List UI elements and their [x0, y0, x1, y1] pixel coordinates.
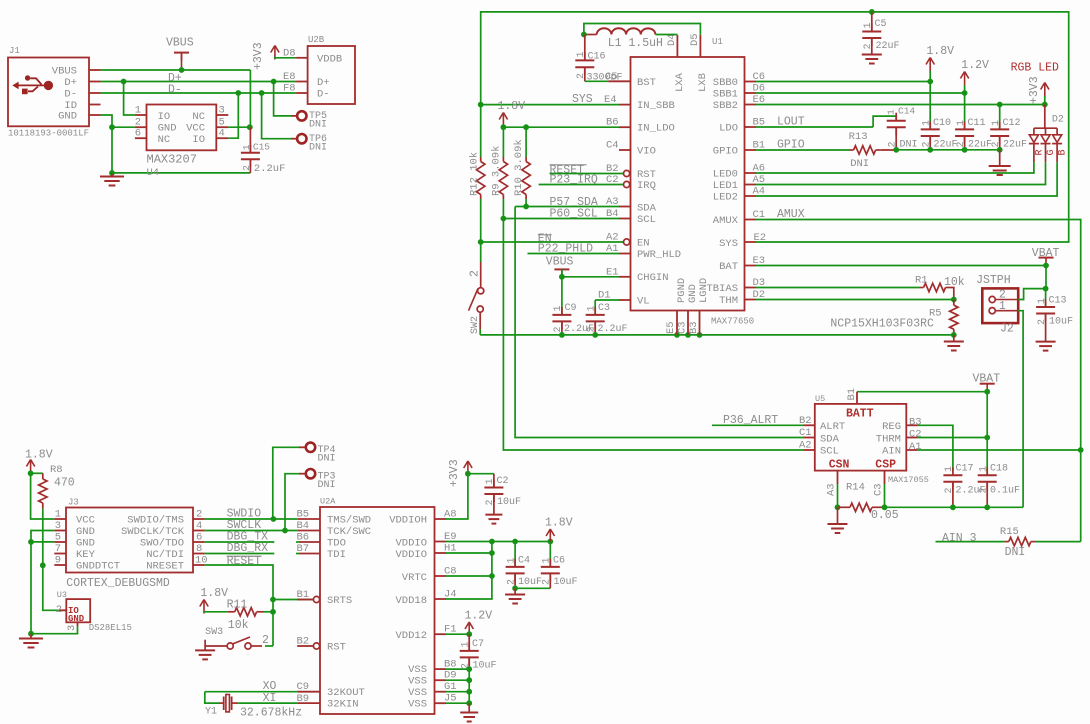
pin J1.ID	[89, 104, 101, 106]
pin U4.5	[216, 126, 228, 128]
pin J3.8	[193, 553, 205, 555]
pin U4.6	[135, 137, 147, 139]
pin U1.LXA D4	[676, 35, 678, 57]
resistor R5 NCP15XH103F03RC	[953, 300, 955, 306]
svg-text:C3: C3	[873, 483, 885, 496]
svg-text:4: 4	[196, 520, 202, 532]
svg-text:LGND: LGND	[698, 278, 710, 303]
wire VL to C3	[595, 299, 619, 301]
svg-text:32.678kHz: 32.678kHz	[240, 707, 302, 720]
label EN	[538, 234, 552, 236]
svg-text:1.2V: 1.2V	[465, 610, 493, 623]
wire VCC to C15	[228, 126, 250, 128]
svg-text:1: 1	[956, 120, 967, 126]
svg-text:J1: J1	[9, 46, 20, 56]
svg-text:1.8V: 1.8V	[545, 517, 573, 530]
svg-text:TDO: TDO	[327, 538, 346, 550]
svg-text:8: 8	[196, 543, 202, 555]
svg-text:J2: J2	[1000, 323, 1014, 336]
svg-text:R: R	[1035, 149, 1046, 155]
svg-text:10uF: 10uF	[554, 577, 578, 588]
pin U1.LED0 A6	[745, 172, 757, 174]
pin U1.BST C5	[608, 80, 630, 82]
svg-text:VRTC: VRTC	[402, 572, 427, 584]
capacitor C12 22uF	[999, 105, 1001, 130]
svg-text:2: 2	[542, 579, 553, 585]
svg-text:7: 7	[55, 543, 61, 555]
pin U1.GPIO B1	[745, 149, 757, 151]
resistor R11 10k	[228, 611, 235, 613]
pin U1.EN A2	[624, 239, 630, 245]
svg-text:NC: NC	[192, 111, 205, 123]
svg-text:2: 2	[956, 141, 967, 147]
svg-text:TBIAS: TBIAS	[706, 283, 738, 295]
wire BATT to VBAT	[857, 392, 987, 438]
pin U3.3	[77, 622, 79, 626]
svg-text:R10 3.09k: R10 3.09k	[513, 139, 525, 196]
pin U1.SBB2 E6	[745, 104, 757, 106]
svg-text:R9 3.09k: R9 3.09k	[491, 146, 503, 196]
wire J2 pin2 to C13	[1018, 289, 1045, 300]
pin U1.LED1 A5	[745, 184, 757, 186]
svg-text:C13: C13	[1049, 296, 1067, 307]
svg-text:VL: VL	[637, 296, 650, 308]
pin U2A.32KIN B9	[297, 702, 320, 704]
ground (C2)	[493, 494, 495, 515]
svg-text:2: 2	[262, 634, 269, 647]
wire TBIAS to R1	[756, 287, 919, 289]
svg-text:10uF: 10uF	[1049, 317, 1073, 328]
svg-text:B3: B3	[688, 321, 700, 334]
svg-text:1: 1	[922, 120, 933, 126]
capacitor C4 10uF	[514, 542, 516, 567]
svg-text:B1: B1	[846, 388, 858, 401]
wire H1 to rail	[446, 552, 492, 554]
wire XI	[238, 702, 297, 704]
svg-text:2: 2	[922, 141, 933, 147]
wire LED B to LED2	[756, 162, 1057, 196]
svg-text:GPIO: GPIO	[713, 146, 738, 158]
wire SYS to IN_SBB	[481, 104, 619, 106]
svg-text:1: 1	[587, 305, 598, 311]
svg-text:LXB: LXB	[697, 73, 709, 92]
svg-text:R11: R11	[227, 599, 248, 612]
svg-text:1: 1	[944, 466, 955, 472]
svg-text:C5: C5	[875, 19, 887, 30]
svg-text:C3: C3	[598, 303, 610, 314]
svg-text:SWO/TDO: SWO/TDO	[140, 538, 184, 550]
svg-text:GNDDTCT: GNDDTCT	[76, 561, 120, 573]
svg-text:2: 2	[979, 487, 990, 493]
svg-text:XI: XI	[263, 692, 277, 705]
wire 1.8V to VCC	[31, 473, 55, 519]
svg-text:VSS: VSS	[408, 676, 427, 688]
svg-text:REG: REG	[882, 421, 901, 433]
wire R8 to GNDDTCT	[42, 509, 44, 566]
ground (R5)	[953, 335, 955, 342]
svg-text:D+: D+	[64, 77, 77, 89]
capacitor C5 22uF	[869, 9, 875, 15]
svg-text:B1: B1	[297, 589, 310, 601]
svg-text:EN: EN	[637, 238, 650, 250]
wire THRM to C18	[918, 437, 987, 439]
wire AMUX to AIN	[756, 220, 1081, 542]
svg-text:VIO: VIO	[637, 146, 656, 158]
capacitor C3 2.2uF	[594, 300, 596, 315]
svg-text:IO: IO	[192, 134, 205, 146]
svg-text:CSP: CSP	[875, 459, 896, 472]
svg-text:B4: B4	[606, 208, 619, 220]
svg-text:22uF: 22uF	[876, 41, 900, 52]
svg-text:DNI: DNI	[1005, 546, 1026, 559]
wire AIN row	[918, 449, 1081, 451]
svg-text:C3: C3	[676, 321, 688, 334]
svg-text:VDD18: VDD18	[395, 595, 427, 607]
svg-text:AMUX: AMUX	[713, 215, 739, 227]
wire GND pin5	[31, 541, 54, 543]
svg-text:LXA: LXA	[674, 72, 686, 92]
svg-text:U2A: U2A	[320, 497, 336, 507]
testpoint TP6 DNI	[262, 93, 291, 139]
capacitor C14 DNI	[873, 116, 896, 127]
svg-text:C7: C7	[472, 639, 484, 650]
svg-text:IN_SBB: IN_SBB	[637, 100, 675, 112]
svg-text:+3V3: +3V3	[1028, 76, 1041, 104]
pin U1.LGND B3	[699, 311, 701, 335]
wire L1 to LXA	[655, 34, 677, 36]
svg-text:C4: C4	[606, 140, 619, 152]
svg-text:C6: C6	[553, 556, 565, 567]
svg-text:DNI: DNI	[900, 140, 918, 151]
svg-text:VDDIO: VDDIO	[395, 549, 427, 561]
wire GND J3 chain	[31, 531, 54, 634]
pin U2A.VSS J5	[435, 702, 447, 704]
svg-text:U2B: U2B	[308, 35, 325, 45]
pin U1.SBB1 D6	[745, 92, 757, 94]
svg-text:2: 2	[587, 326, 598, 332]
svg-text:1: 1	[461, 641, 472, 647]
svg-text:U4: U4	[147, 167, 160, 179]
wire THM row	[756, 299, 954, 301]
svg-text:TDI: TDI	[327, 549, 346, 561]
svg-text:NRESET: NRESET	[146, 561, 184, 573]
pin U2A.VRTC C8	[435, 575, 447, 577]
svg-text:SBB1: SBB1	[713, 89, 738, 101]
svg-text:10uF: 10uF	[497, 497, 521, 508]
wire SDA drop to U5	[515, 207, 803, 438]
svg-text:DNI: DNI	[309, 142, 327, 153]
pin J3.7	[54, 553, 66, 555]
IC U4 MAX3207	[147, 105, 217, 151]
svg-text:THRM: THRM	[876, 433, 901, 445]
wire VBUS to CHGIN	[562, 269, 619, 276]
svg-text:VCC: VCC	[76, 515, 95, 527]
svg-text:VBUS: VBUS	[166, 37, 194, 50]
svg-text:VBUS: VBUS	[546, 255, 574, 268]
svg-text:6: 6	[196, 532, 202, 544]
switch SW2	[480, 242, 482, 262]
svg-text:5: 5	[55, 532, 61, 544]
wire 1.2V stem	[964, 85, 966, 93]
pin J3.1	[54, 518, 66, 520]
svg-text:VSS: VSS	[408, 699, 427, 711]
pin U5.ALRT B2	[804, 424, 815, 426]
svg-text:SW3: SW3	[205, 627, 223, 638]
svg-text:B2: B2	[297, 636, 310, 648]
svg-text:SBB2: SBB2	[713, 100, 738, 112]
pin J3.9	[54, 564, 66, 566]
svg-text:9: 9	[55, 555, 61, 567]
svg-text:C18: C18	[990, 464, 1008, 475]
svg-text:1.2V: 1.2V	[961, 59, 989, 72]
svg-text:SCL: SCL	[820, 446, 839, 458]
svg-text:JSTPH: JSTPH	[976, 274, 1011, 287]
svg-text:3: 3	[55, 520, 61, 532]
ground (USB)	[109, 170, 115, 176]
resistor R9 3.09k	[502, 127, 504, 157]
svg-text:2: 2	[553, 326, 564, 332]
wire D+ to U4 pin1	[124, 82, 135, 116]
wire +3V3 stem to LED	[1044, 96, 1046, 105]
svg-text:DS28EL15: DS28EL15	[89, 623, 132, 633]
resistor R12 10k	[480, 105, 482, 157]
svg-text:B9: B9	[297, 693, 310, 705]
svg-text:1.8V: 1.8V	[926, 45, 954, 58]
wire GND rail	[480, 334, 954, 336]
svg-text:VDDB: VDDB	[317, 54, 342, 66]
wire RESET to RST	[550, 173, 624, 175]
capacitor C16 3300pF	[584, 35, 586, 61]
node D- wire	[101, 92, 297, 94]
svg-text:LED1: LED1	[713, 180, 738, 192]
ground (CSN)	[837, 507, 839, 524]
svg-text:10uF: 10uF	[518, 577, 542, 588]
wire 1.8V stem	[929, 71, 931, 82]
pin U5.SCL A2	[804, 449, 815, 451]
resistor R15 DNI	[1005, 541, 1009, 543]
svg-text:U5: U5	[815, 394, 825, 404]
svg-text:2: 2	[196, 509, 202, 521]
svg-text:A2: A2	[606, 232, 619, 244]
svg-text:10k: 10k	[228, 619, 249, 632]
pin U2B.D8	[296, 57, 308, 59]
svg-text:THM: THM	[719, 295, 738, 307]
svg-text:R8: R8	[50, 464, 63, 476]
wire P22_PHLD	[528, 253, 620, 255]
svg-text:SYS: SYS	[719, 238, 738, 250]
pin U2A.SRTS B1	[297, 599, 313, 601]
pin U2A.VSS G1	[435, 691, 447, 693]
svg-text:1: 1	[863, 22, 874, 28]
pin U3.2	[60, 609, 66, 611]
ground (C13)	[1045, 314, 1047, 342]
svg-text:A1: A1	[606, 243, 619, 255]
svg-text:1: 1	[135, 105, 141, 117]
svg-text:C15: C15	[253, 141, 270, 152]
svg-text:BATT: BATT	[846, 408, 874, 421]
svg-text:2: 2	[56, 604, 62, 616]
svg-text:1: 1	[542, 557, 553, 563]
wire VSS chain	[446, 668, 469, 670]
svg-text:SRTS: SRTS	[327, 595, 352, 607]
wire SCL drop to U5	[503, 219, 803, 451]
svg-text:A2: A2	[799, 440, 812, 452]
svg-text:SBB0: SBB0	[713, 77, 738, 89]
pin U4.3	[216, 114, 228, 116]
wire R11 to SRTS node	[264, 611, 274, 613]
wire SYS loop top	[481, 12, 1069, 242]
svg-text:D-: D-	[168, 84, 182, 97]
svg-text:VBUS: VBUS	[52, 66, 77, 78]
label RESET (J3)	[227, 555, 262, 557]
svg-text:G: G	[1046, 149, 1057, 155]
svg-text:A3: A3	[826, 483, 838, 496]
capacitor C15 2.2uF	[249, 127, 251, 153]
svg-text:6: 6	[135, 128, 141, 140]
svg-text:1.8V: 1.8V	[200, 587, 228, 600]
svg-text:1: 1	[1037, 298, 1048, 304]
pin U2A.VDDIOH A8	[435, 518, 447, 520]
wire SCL	[503, 218, 619, 220]
svg-text:LDO: LDO	[719, 123, 738, 135]
svg-text:R12 10k: R12 10k	[469, 152, 481, 196]
svg-text:U3: U3	[57, 590, 67, 600]
svg-text:2.2uF: 2.2uF	[254, 163, 286, 175]
wire SBB0 1.8V rail	[756, 81, 930, 83]
pin U5.SDA C1	[804, 437, 815, 439]
svg-text:AIN_3: AIN_3	[942, 532, 977, 545]
svg-text:10118193-0001LF: 10118193-0001LF	[8, 129, 89, 139]
svg-text:VSS: VSS	[408, 664, 427, 676]
svg-text:VDDIOH: VDDIOH	[389, 515, 427, 527]
inductor L1 1.5uH	[585, 34, 597, 36]
svg-text:BST: BST	[637, 77, 656, 89]
svg-text:R13: R13	[849, 131, 868, 143]
wire LED R to LED0	[756, 162, 1034, 173]
svg-text:1: 1	[991, 120, 1002, 126]
svg-text:E5: E5	[665, 321, 677, 334]
pin J3.2	[193, 518, 205, 520]
wire 1.8V to R11	[204, 611, 228, 613]
pin U2B.E8	[296, 81, 308, 83]
pin J3.4	[193, 530, 205, 532]
svg-text:CORTEX_DEBUGSMD: CORTEX_DEBUGSMD	[66, 577, 170, 590]
svg-text:NC: NC	[158, 134, 171, 146]
ground (C12 rail)	[999, 150, 1001, 166]
wire SRTS	[273, 599, 313, 601]
svg-text:B7: B7	[297, 543, 310, 555]
wire D- to U4 pin4	[228, 93, 238, 138]
svg-text:TCK/SWC: TCK/SWC	[327, 526, 371, 538]
svg-text:GND: GND	[76, 526, 95, 538]
svg-text:B4: B4	[297, 520, 310, 532]
ground (C4)	[514, 588, 516, 594]
svg-text:B5: B5	[297, 509, 310, 521]
pin U1.SDA A3	[619, 206, 631, 208]
svg-text:MAX3207: MAX3207	[147, 153, 197, 167]
capacitor C11 22uF	[964, 93, 966, 129]
svg-text:GND: GND	[68, 614, 85, 624]
svg-text:1.8V: 1.8V	[498, 100, 526, 113]
svg-text:2: 2	[469, 270, 482, 277]
svg-text:C16: C16	[588, 52, 606, 63]
wire C16 to BST	[585, 80, 608, 82]
svg-text:CSN: CSN	[829, 459, 850, 472]
wire DBG_RX	[205, 553, 275, 555]
pin U1.SBB0 C6	[745, 81, 757, 83]
connector J3 CORTEX_DEBUGSMD	[66, 508, 193, 573]
pin J1.GND	[89, 114, 101, 116]
pin U2B.F8	[296, 92, 308, 94]
wire VBUS net	[101, 69, 251, 71]
svg-text:MAX17055: MAX17055	[888, 475, 929, 485]
wire C15 return	[112, 172, 250, 174]
wire BAT row	[756, 265, 1046, 267]
svg-text:GND: GND	[158, 123, 177, 135]
wire RESET net	[205, 565, 273, 646]
svg-text:C12: C12	[1003, 118, 1021, 129]
svg-text:470: 470	[54, 477, 75, 490]
wire AIN_3	[936, 541, 1005, 543]
svg-text:1: 1	[553, 305, 564, 311]
wire J4 to rail	[446, 542, 492, 600]
capacitor C2 10uF	[493, 474, 495, 488]
svg-text:VDDIO: VDDIO	[395, 538, 427, 550]
svg-text:2: 2	[944, 487, 955, 493]
svg-text:LED0: LED0	[713, 169, 738, 181]
svg-text:32KOUT: 32KOUT	[327, 687, 365, 699]
wire LED G to LED1	[756, 162, 1046, 184]
wire SBB2 +3V3 rail	[756, 104, 1045, 106]
pin U1.IRQ C2	[624, 181, 630, 187]
pin U1.TBIAS D3	[745, 287, 757, 289]
svg-text:IN_LDO: IN_LDO	[637, 123, 675, 135]
svg-text:L1 1.5uH: L1 1.5uH	[608, 37, 663, 50]
wire CSN stub down	[837, 484, 839, 507]
pin U1.LXB D5	[699, 35, 701, 57]
svg-text:DNI: DNI	[318, 480, 336, 491]
svg-text:DNI: DNI	[309, 120, 327, 131]
svg-text:C17: C17	[956, 464, 974, 475]
resistor R14 0.05	[838, 506, 851, 508]
wire P36_ALRT	[712, 424, 804, 426]
wire loop to LXB	[584, 24, 701, 35]
svg-text:GND: GND	[58, 111, 77, 123]
pin U1.PWR_HLD A1	[619, 253, 631, 255]
svg-text:F8: F8	[283, 83, 296, 95]
pin U1.BAT E3	[745, 265, 757, 267]
pin U1.CHGIN E1	[619, 276, 631, 278]
svg-text:KEY: KEY	[76, 549, 96, 561]
svg-text:D+: D+	[317, 77, 330, 89]
capacitor C7 10uF	[468, 634, 470, 651]
pin U2A.VSS D9	[435, 679, 447, 681]
capacitor C9 2.2uF	[561, 277, 563, 315]
svg-text:IRQ: IRQ	[637, 180, 656, 192]
svg-text:E2: E2	[754, 232, 767, 244]
svg-text:R1: R1	[915, 275, 928, 287]
wire GND U4 pin2	[112, 126, 135, 128]
svg-text:C10: C10	[933, 118, 951, 129]
svg-text:TMS/SWD: TMS/SWD	[327, 515, 371, 527]
pin U2A.VDDIO H1	[435, 552, 447, 554]
wire R1 to node	[950, 288, 954, 300]
wire VBUS to VCC	[249, 70, 251, 127]
svg-text:2: 2	[241, 165, 252, 171]
svg-text:AIN: AIN	[882, 446, 901, 458]
pin U5.THRM C2	[906, 437, 918, 439]
svg-text:2.2uF: 2.2uF	[598, 324, 628, 335]
